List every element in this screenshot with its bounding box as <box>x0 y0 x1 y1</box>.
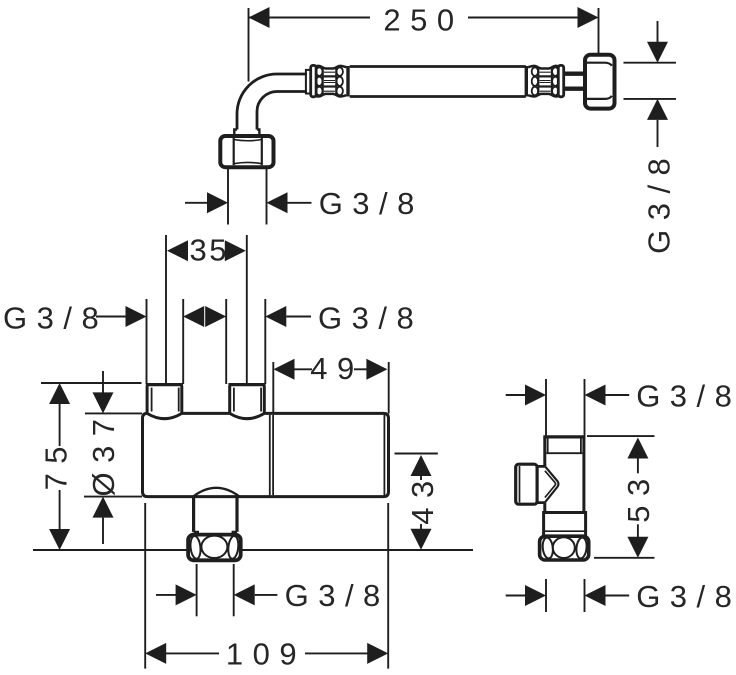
valve body joint double line <box>270 415 273 495</box>
svg-text:250: 250 <box>383 2 463 37</box>
hose flare collar above nut <box>234 130 259 137</box>
outlet pipe neck steps <box>194 532 237 535</box>
side view tube walls <box>545 437 584 513</box>
side collar <box>544 513 586 537</box>
dimension 250 line <box>249 17 597 19</box>
side view extension lines top <box>545 379 547 436</box>
G3/8 front right arrow <box>265 306 286 327</box>
dimension 53 top reference line <box>587 435 655 437</box>
crimp sleeve right junction bar <box>525 66 528 97</box>
svg-text:G3/8: G3/8 <box>3 301 108 336</box>
extension lines outlet thread <box>196 564 198 616</box>
G3/8 hose nut right arrow <box>267 192 288 213</box>
side collar inner line <box>544 530 586 532</box>
svg-text:G3/8: G3/8 <box>319 186 424 221</box>
svg-text:35: 35 <box>190 233 229 268</box>
hose nut right body <box>585 55 615 109</box>
svg-text:43: 43 <box>405 471 440 524</box>
G3/8 outlet right arrow <box>234 584 255 605</box>
G3/8 label hose nut leader <box>185 202 212 204</box>
dimension 49 arrows <box>274 359 295 380</box>
crimp sleeve right row separator lines <box>538 76 553 86</box>
crimp sleeve right fine hatch lines <box>540 72 551 91</box>
svg-text:G3/8: G3/8 <box>636 579 736 614</box>
side view thread lines <box>548 439 581 454</box>
hose nut right chamfer lines <box>587 63 612 99</box>
side stub neck <box>537 466 545 502</box>
dimension 43 top reference line <box>395 453 438 455</box>
crimp sleeve left fine hatch lines <box>324 72 335 91</box>
inlet pipe 2 <box>230 386 265 413</box>
dimension D37 top reference line <box>85 412 142 414</box>
side view extension lines bottom <box>545 579 547 612</box>
crimp sleeve right barrel outline <box>528 66 558 97</box>
extension line pipe1 left <box>146 299 148 384</box>
crimp sleeve left row separator lines <box>322 76 337 86</box>
dimension D37 down arrow <box>102 371 104 393</box>
outlet pipe walls <box>194 497 237 532</box>
svg-text:G3/8: G3/8 <box>318 301 423 336</box>
extension line right of 250 <box>598 8 600 54</box>
crimp sleeve left step ring <box>306 70 311 94</box>
dimension 75 top reference line <box>41 382 142 384</box>
hose neck bottom wall <box>565 86 586 90</box>
side view tube top edge <box>543 435 585 438</box>
extension line pipe1 right <box>182 299 184 384</box>
side stub chevron outer <box>545 466 559 502</box>
outlet nut right oval <box>227 536 239 560</box>
dimension D37 bottom reference line <box>84 496 142 498</box>
G3/8 side top right arrow <box>585 385 606 406</box>
G3/8 hose dim down arrow <box>657 21 659 43</box>
extension line pipe2 right <box>264 299 266 384</box>
hose elbow inner edge <box>257 92 307 130</box>
outlet nut body <box>188 535 241 561</box>
extension line left of 250 <box>248 8 250 82</box>
dimension D37 up arrow <box>93 497 114 518</box>
crimp sleeve left junction bar <box>346 66 349 97</box>
hose neck top wall <box>565 71 586 75</box>
dimension 49 line <box>295 368 369 370</box>
valve body <box>143 413 389 496</box>
hose tube bottom edge <box>350 95 526 98</box>
inlet pipe 2 thread lines <box>234 388 261 412</box>
G3/8 label front left leader <box>96 316 128 318</box>
dimension 75 up arrow <box>49 383 70 404</box>
side stub inner thread line <box>519 466 521 502</box>
crimp sleeve left barrel outline <box>316 66 346 97</box>
dimension 43 down arrow <box>420 524 422 530</box>
crimp sleeve right rim <box>558 65 563 96</box>
crimp sleeve left bead column bars <box>323 68 337 96</box>
inlet pipe 1 thread lines <box>152 388 179 412</box>
valve body right inner line <box>383 415 385 495</box>
G3/8 hose dim up arrow <box>647 99 668 120</box>
crimp sleeve right bead column bars <box>538 68 552 96</box>
side stub box <box>516 464 537 504</box>
crimp sleeve left bead ovals <box>316 67 343 95</box>
hose tube top edge <box>350 65 526 68</box>
reference line G3/8 hose bottom <box>624 98 677 100</box>
outlet nut middle oval <box>201 536 227 558</box>
svg-text:49: 49 <box>310 351 363 386</box>
outlet nut left oval <box>189 536 201 560</box>
side view thread band line <box>546 452 582 454</box>
hose nut left face lines <box>234 138 262 165</box>
hose nut left body <box>220 136 273 167</box>
dimension 53 up arrow <box>627 438 648 459</box>
dimension 53 bottom reference line <box>594 557 655 559</box>
svg-text:G3/8: G3/8 <box>285 578 390 613</box>
side nut body <box>540 536 589 560</box>
dimension 109 extension lines <box>144 503 146 669</box>
G3/8 outlet leader <box>156 594 179 596</box>
side nut right oval <box>575 537 587 559</box>
extension line pipe2 left <box>225 299 227 384</box>
crimp sleeve left rim <box>311 65 316 96</box>
inlet pipe 1 <box>147 386 182 413</box>
G3/8 side bottom leader <box>506 595 527 597</box>
dimension 43 up arrow <box>411 455 432 476</box>
bottom reference plane line <box>33 549 473 551</box>
svg-text:G3/8: G3/8 <box>636 378 736 413</box>
G3/8 side top leader <box>506 394 527 396</box>
side nut middle oval <box>553 537 575 558</box>
svg-text:75: 75 <box>38 437 73 490</box>
hose nut left face curves <box>234 140 262 164</box>
reference line G3/8 hose top <box>624 62 677 64</box>
dimension 49 extension lines <box>272 362 274 414</box>
svg-text:Ø37: Ø37 <box>86 409 121 496</box>
dimension 109 line <box>166 652 368 654</box>
dimension 35 extension lines <box>165 235 167 384</box>
svg-text:53: 53 <box>621 469 656 522</box>
svg-text:109: 109 <box>226 637 306 672</box>
outlet dome arc <box>193 488 240 497</box>
dimension 250 left arrow <box>249 7 270 28</box>
hose elbow outer edge <box>237 74 307 130</box>
side nut left oval <box>542 537 554 559</box>
dimension 250 right arrow <box>578 7 599 28</box>
dimension 75 down arrow <box>59 490 61 529</box>
svg-text:G3/8: G3/8 <box>642 149 677 254</box>
dimension 109 arrows <box>145 643 166 664</box>
crimp sleeve right bead ovals <box>532 67 559 95</box>
dimension 35 arrows <box>167 240 188 261</box>
side stub chevron inner <box>545 471 556 498</box>
middle back-to-back arrows <box>183 306 204 327</box>
extension lines hose nut thread <box>227 169 229 225</box>
dimension 53 down arrow <box>637 524 639 537</box>
G3/8 side bottom right arrow <box>585 585 606 606</box>
